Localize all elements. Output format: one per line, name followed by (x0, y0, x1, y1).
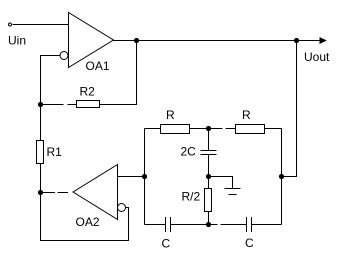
svg-text:OA1: OA1 (86, 59, 110, 73)
svg-text:C: C (162, 237, 171, 251)
resistor R/2 (205, 189, 212, 212)
wire node A to R2 left (41, 104, 64, 106)
wire segment gap piece to R2 (68, 104, 77, 106)
wire bottom rail segment 4 (252, 224, 282, 226)
node A junction dot (38, 102, 43, 107)
junction dot OA1 output / R2 (134, 38, 139, 43)
wire middle stem 2C to R/2 (208, 155, 210, 189)
svg-text:2C: 2C (181, 145, 197, 159)
wire bottom rail segment 2 (171, 224, 218, 226)
wire OA1 inverting input to feedback node A (41, 56, 61, 105)
wire bottom rail segment 3 (221, 224, 247, 226)
resistor R2 (77, 101, 100, 108)
op-amp OA1 inverting input bubble (60, 52, 68, 60)
wire R1 to node B (40, 164, 42, 193)
wire middle stem above 2C (208, 129, 210, 151)
junction dot output / drop wire (294, 38, 299, 43)
capacitor C left plates (165, 217, 167, 232)
output arrow head (320, 37, 327, 44)
wire OA2 inverting feedback loop (41, 193, 129, 241)
resistor R left of twin-T (161, 125, 190, 134)
svg-text:R: R (166, 108, 175, 122)
capacitor C right plates (246, 217, 248, 232)
svg-text:Uin: Uin (8, 34, 26, 48)
wire Uin to OA1 noninverting input (13, 24, 69, 26)
op-amp OA1 (69, 13, 114, 68)
junction dot twin-T left (142, 174, 147, 179)
node B junction dot (38, 190, 43, 195)
wire twin-T top rail right part (226, 128, 282, 130)
wire twin-T left vertical (144, 129, 146, 225)
junction dot twin-T middle node (206, 174, 211, 179)
svg-text:R2: R2 (80, 85, 96, 99)
wire node B to OA2 output (43, 192, 55, 194)
wire twin-T right vertical (281, 129, 283, 225)
svg-text:OA2: OA2 (76, 215, 100, 229)
wire OA2 noninverting input to twin-T left node (118, 176, 145, 178)
wire twin-T top rail left part (145, 128, 223, 130)
wire output drop to twin-T right node (282, 41, 297, 177)
svg-text:Uout: Uout (304, 50, 330, 64)
wire middle node to ground (209, 177, 233, 189)
resistor R1 (37, 141, 44, 164)
op-amp OA2 inverting input bubble (118, 204, 126, 212)
wire middle stem below R/2 (208, 212, 210, 225)
svg-text:R/2: R/2 (182, 190, 201, 204)
capacitor 2C plates (201, 150, 217, 152)
wire segment to OA2 apex (58, 192, 69, 194)
op-amp OA2 (73, 165, 118, 220)
wire node A down to R1 (40, 105, 42, 141)
junction dot twin-T right (279, 174, 284, 179)
svg-text:C: C (245, 236, 254, 250)
wire bottom rail segment 1 (145, 224, 166, 226)
resistor R right of twin-T (236, 125, 265, 134)
svg-text:R1: R1 (47, 145, 63, 159)
wire OA1 output to arrow (112, 40, 320, 42)
input terminal circle (9, 23, 12, 26)
junction dot twin-T bottom middle (206, 222, 211, 227)
wire R2 right up to output junction (100, 41, 137, 105)
ground (225, 188, 241, 190)
svg-text:R: R (242, 108, 251, 122)
junction dot twin-T top middle (206, 126, 211, 131)
